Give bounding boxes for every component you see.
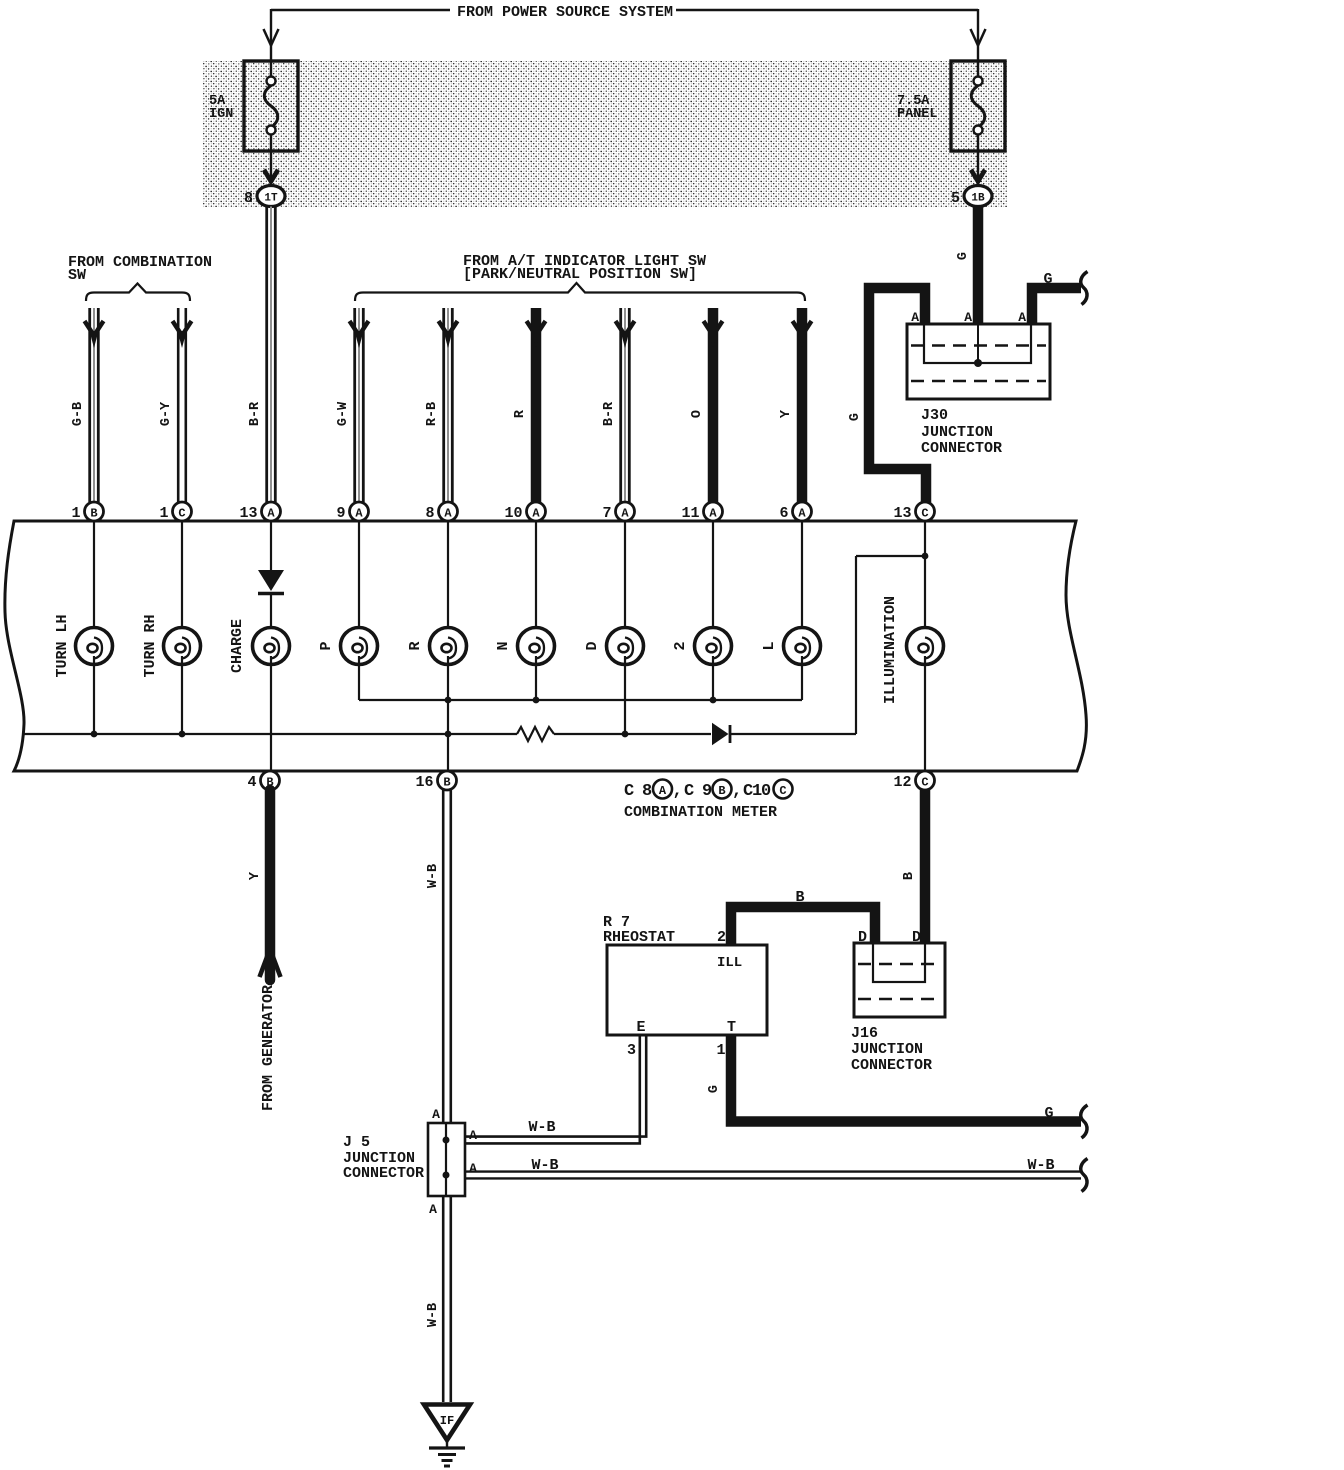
meter wire from top connector x=94: [93, 521, 95, 640]
J5 pin labels A: [429, 1107, 477, 1217]
svg-text:A: A: [444, 507, 452, 521]
svg-text:RHEOSTAT: RHEOSTAT: [603, 929, 675, 946]
svg-text:CONNECTOR: CONNECTOR: [343, 1165, 424, 1182]
bulb exit wire x=271: [270, 656, 272, 771]
rheostat R7 box: [607, 945, 767, 1036]
svg-text:ILLUMINATION: ILLUMINATION: [882, 596, 899, 704]
label C8 C9 C10 connector ids: [624, 780, 793, 802]
svg-text:A: A: [532, 507, 540, 521]
connector oval 5 1B: [951, 186, 992, 208]
meter junction dots: [91, 697, 717, 738]
svg-text:IF: IF: [440, 1414, 454, 1428]
rheostat pin labels: [627, 929, 726, 1059]
bulb N: [495, 628, 555, 665]
svg-text:W-B: W-B: [531, 1157, 558, 1174]
svg-text:G: G: [707, 1085, 722, 1093]
svg-text:JUNCTION: JUNCTION: [921, 424, 993, 441]
wire G-Y at x=182: [159, 308, 192, 502]
connector pin 7 A at meter top: [602, 502, 634, 522]
connector pin 10 A at meter top: [504, 502, 545, 522]
svg-text:W-B: W-B: [426, 864, 441, 888]
svg-text:8: 8: [244, 190, 253, 207]
svg-text:D: D: [912, 929, 921, 946]
connector pin 9 A at meter top: [336, 502, 368, 522]
meter bus line lower segment 3: [731, 733, 856, 735]
bulb exit wire x=182: [181, 656, 183, 734]
bulb exit wire x=802: [801, 656, 803, 700]
wire G from J30 left pin to meter 13C: [869, 288, 926, 503]
ground IF: [424, 1405, 470, 1467]
wire Y from generator: [248, 790, 281, 1111]
wire W-B rheostat E to J5: [465, 1035, 646, 1143]
wire B from meter 12C to J16: [902, 790, 925, 943]
svg-text:G-B: G-B: [71, 402, 86, 426]
bulb exit wire x=94: [93, 656, 95, 734]
connector pin 12 C at meter bottom: [893, 771, 934, 791]
wire O at x=713: [690, 308, 723, 502]
svg-text:T: T: [727, 1019, 736, 1036]
svg-text:B: B: [718, 784, 725, 798]
brace combination sw: [86, 284, 190, 302]
svg-text:R: R: [513, 409, 528, 418]
connector pin 16 B at meter bottom: [415, 771, 456, 791]
junction connector J30: [907, 324, 1050, 399]
svg-text:,: ,: [732, 782, 742, 801]
charge diode feed: [258, 521, 284, 640]
svg-text:A: A: [911, 310, 919, 325]
svg-text:CONNECTOR: CONNECTOR: [921, 440, 1002, 457]
svg-text:G-Y: G-Y: [159, 401, 174, 426]
svg-text:N: N: [495, 641, 512, 650]
label 7.5A PANEL: [897, 94, 938, 122]
svg-text:ILL: ILL: [717, 955, 742, 971]
illumination branch wire: [856, 556, 925, 734]
wire G from rheostat T with break: [707, 1035, 1088, 1138]
svg-text:13: 13: [893, 505, 911, 522]
wire G from J30 right pin with break: [1032, 271, 1088, 324]
svg-text:10: 10: [504, 505, 522, 522]
bulb TURN LH: [54, 614, 113, 677]
svg-text:B: B: [443, 776, 450, 790]
svg-text:O: O: [690, 410, 705, 418]
svg-text:A: A: [659, 784, 667, 798]
meter wire from top connector x=802: [801, 521, 803, 640]
svg-text:TURN RH: TURN RH: [142, 614, 159, 677]
bulb P: [318, 628, 378, 665]
wire R-B at x=448: [425, 308, 458, 502]
svg-text:PANEL: PANEL: [897, 107, 938, 122]
wire Y at x=802: [779, 308, 812, 502]
svg-text:P: P: [318, 641, 335, 650]
svg-text:1: 1: [716, 1042, 725, 1059]
arrow into fuse PANEL: [971, 29, 986, 46]
bulb exit wire x=713: [712, 656, 714, 700]
svg-text:,: ,: [673, 782, 683, 801]
bulb exit wire x=536: [535, 656, 537, 700]
svg-text:G: G: [1043, 271, 1052, 288]
svg-text:A: A: [709, 507, 717, 521]
svg-text:G: G: [1044, 1105, 1053, 1122]
svg-text:L: L: [761, 641, 778, 650]
meter bus line lower segment 2: [554, 733, 711, 735]
connector oval 8 1T: [244, 186, 285, 208]
svg-text:C: C: [921, 507, 928, 521]
combination meter box outline: [5, 521, 1087, 771]
svg-text:C 8: C 8: [624, 782, 652, 801]
svg-text:1T: 1T: [264, 193, 278, 205]
wire W-B from meter 16B to J5: [426, 790, 451, 1123]
svg-text:B: B: [90, 507, 97, 521]
svg-text:A: A: [469, 1161, 477, 1176]
wire G-B at x=94: [71, 308, 104, 502]
junction connector J5: [428, 1123, 465, 1196]
svg-text:COMBINATION METER: COMBINATION METER: [624, 804, 777, 821]
wire W-B from J5 to ground: [426, 1196, 451, 1402]
svg-text:Y: Y: [248, 871, 263, 880]
svg-text:B-R: B-R: [248, 401, 263, 426]
svg-text:A: A: [469, 1128, 477, 1143]
illumination feed with node: [922, 521, 929, 640]
svg-text:1B: 1B: [971, 193, 985, 205]
bulb exit wire x=448: [447, 656, 449, 771]
svg-text:9: 9: [336, 505, 345, 522]
svg-text:C: C: [921, 776, 928, 790]
wire W-B from J5 to right with break: [465, 1157, 1088, 1192]
svg-text:J30: J30: [921, 407, 948, 424]
fuse 5A IGN: [244, 61, 298, 184]
svg-text:FROM GENERATOR: FROM GENERATOR: [260, 985, 277, 1111]
label R 7 RHEOSTAT: [603, 914, 675, 946]
meter wire from top connector x=182: [181, 521, 183, 640]
bulb CHARGE: [229, 619, 290, 673]
meter diode: [712, 723, 730, 745]
svg-text:J16: J16: [851, 1025, 878, 1042]
svg-text:C10: C10: [743, 782, 771, 801]
connector pin 1 B at meter top: [71, 502, 103, 522]
svg-text:TURN LH: TURN LH: [54, 614, 71, 677]
svg-text:C 9: C 9: [684, 782, 712, 801]
connector pin 6 A at meter top: [779, 502, 811, 522]
svg-text:5: 5: [951, 190, 960, 207]
svg-text:A: A: [429, 1202, 437, 1217]
svg-text:12: 12: [893, 774, 911, 791]
svg-text:A: A: [798, 507, 806, 521]
svg-text:G: G: [956, 252, 971, 260]
meter bus line upper: [359, 699, 802, 701]
svg-text:13: 13: [239, 505, 257, 522]
svg-text:W-B: W-B: [528, 1119, 555, 1136]
svg-text:G-W: G-W: [336, 401, 351, 426]
svg-text:A: A: [355, 507, 363, 521]
svg-text:W-B: W-B: [1027, 1157, 1054, 1174]
svg-text:A: A: [267, 507, 275, 521]
svg-text:4: 4: [247, 774, 256, 791]
svg-text:A: A: [964, 310, 972, 325]
svg-text:C: C: [178, 507, 185, 521]
svg-text:2: 2: [672, 641, 689, 650]
svg-text:W-B: W-B: [426, 1303, 441, 1327]
svg-text:B: B: [795, 889, 804, 906]
svg-text:E: E: [636, 1019, 645, 1036]
connector pin 11 A at meter top: [681, 502, 722, 522]
svg-text:1: 1: [71, 505, 80, 522]
wire G from fuse PANEL to J30: [956, 207, 978, 325]
connector pin 13 A at meter top: [239, 502, 280, 522]
svg-text:[PARK/NEUTRAL POSITION SW]: [PARK/NEUTRAL POSITION SW]: [463, 266, 697, 283]
svg-text:CHARGE: CHARGE: [229, 619, 246, 673]
svg-text:FROM COMBINATION: FROM COMBINATION: [68, 254, 212, 271]
svg-text:FROM POWER SOURCE SYSTEM: FROM POWER SOURCE SYSTEM: [457, 4, 673, 21]
label FROM COMBINATION SW: [68, 254, 212, 284]
svg-text:CONNECTOR: CONNECTOR: [851, 1057, 932, 1074]
svg-text:11: 11: [681, 505, 699, 522]
bulb exit wire x=925: [924, 656, 926, 771]
junction connector J16: [854, 943, 945, 1017]
svg-text:8: 8: [425, 505, 434, 522]
svg-text:Y: Y: [779, 409, 794, 418]
meter resistor: [517, 727, 554, 741]
meter wire from top connector x=448: [447, 521, 449, 640]
arrow into fuse IGN: [264, 29, 279, 46]
svg-text:R: R: [407, 641, 424, 650]
svg-text:B-R: B-R: [602, 401, 617, 426]
label 5A IGN: [209, 94, 233, 122]
bulb D: [584, 628, 644, 665]
svg-text:D: D: [584, 641, 601, 650]
connector pin 1 C at meter top: [159, 502, 191, 522]
label J 5 JUNCTION CONNECTOR: [343, 1134, 424, 1182]
power source stipple band: [203, 61, 1007, 207]
bulb exit wire x=625: [624, 656, 626, 734]
label J16 JUNCTION CONNECTOR: [851, 1025, 932, 1074]
wire B-R at x=625: [602, 308, 635, 502]
bulb exit wire x=359: [358, 656, 360, 700]
svg-text:1: 1: [159, 505, 168, 522]
arrow into connector 1T: [262, 169, 280, 187]
connector pin 8 A at meter top: [425, 502, 457, 522]
svg-text:B: B: [902, 872, 917, 880]
svg-text:A: A: [432, 1107, 440, 1122]
meter wire from top connector x=625: [624, 521, 626, 640]
bulb 2: [672, 628, 732, 665]
bulb L: [761, 628, 821, 665]
svg-text:A: A: [621, 507, 629, 521]
wire B-R at x=271: [248, 207, 275, 503]
wire R at x=536: [513, 308, 546, 502]
meter wire from top connector x=536: [535, 521, 537, 640]
label J30 JUNCTION CONNECTOR: [921, 407, 1002, 457]
wire B rheostat to J16: [731, 889, 875, 945]
svg-text:R-B: R-B: [425, 402, 440, 426]
arrow into connector 1B: [969, 169, 987, 187]
meter wire from top connector x=359: [358, 521, 360, 640]
svg-text:G: G: [848, 413, 863, 421]
connector pin 4 B at meter bottom: [247, 771, 279, 791]
brace A/T indicator: [355, 283, 805, 301]
svg-text:J 5: J 5: [343, 1134, 370, 1151]
svg-text:IGN: IGN: [209, 107, 233, 122]
meter wire from top connector x=713: [712, 521, 714, 640]
bulb R: [407, 628, 467, 665]
svg-text:16: 16: [415, 774, 433, 791]
label FROM A/T INDICATOR LIGHT SW: [463, 253, 706, 283]
fuse 7.5A PANEL: [951, 61, 1005, 184]
svg-text:A: A: [1018, 310, 1026, 325]
wire from power source system: [271, 9, 978, 77]
svg-text:2: 2: [717, 929, 726, 946]
connector pin 13 C at meter top: [893, 502, 934, 522]
bulb TURN RH: [142, 614, 201, 677]
wire G-W at x=359: [336, 308, 369, 502]
svg-text:SW: SW: [68, 267, 86, 284]
svg-text:C: C: [779, 784, 786, 798]
J30 pin labels A A A: [911, 310, 1026, 325]
svg-text:D: D: [858, 929, 867, 946]
meter bus line lower segment 1: [22, 733, 517, 735]
svg-text:6: 6: [779, 505, 788, 522]
bulb ILLUMINATION: [882, 596, 944, 704]
svg-text:JUNCTION: JUNCTION: [851, 1041, 923, 1058]
svg-text:7: 7: [602, 505, 611, 522]
J16 pin labels D D: [858, 929, 921, 946]
svg-text:3: 3: [627, 1042, 636, 1059]
